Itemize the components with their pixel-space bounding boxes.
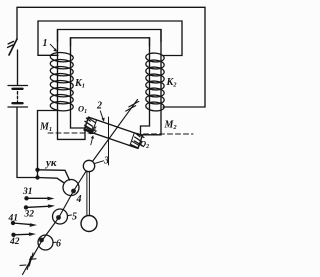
wire vertical branch bbox=[38, 21, 58, 55]
svg-text:6: 6 bbox=[56, 239, 61, 250]
svg-text:42: 42 bbox=[9, 237, 20, 247]
weight hanger double link bbox=[86, 171, 88, 216]
junction dot bbox=[35, 168, 39, 172]
switch SA blade bbox=[9, 39, 17, 55]
contact 42 bbox=[11, 232, 36, 237]
weight ball bbox=[81, 216, 97, 232]
roller circle 6 bbox=[38, 235, 53, 250]
svg-text:ук: ук bbox=[44, 157, 57, 169]
switch tick 2 bbox=[8, 45, 13, 48]
svg-text:О1: О1 bbox=[78, 104, 87, 116]
lever arm bbox=[23, 100, 138, 275]
leader 6 bbox=[53, 241, 56, 243]
lever flexure ticks bottom bbox=[29, 253, 33, 266]
leader 5 bbox=[68, 214, 72, 217]
contact 32 bbox=[24, 204, 55, 209]
svg-text:О2: О2 bbox=[140, 139, 149, 151]
roller circle 5 bbox=[53, 209, 68, 224]
svg-text:31: 31 bbox=[22, 187, 33, 197]
svg-text:5: 5 bbox=[72, 212, 77, 223]
svg-text:2: 2 bbox=[96, 101, 102, 112]
svg-text:4: 4 bbox=[76, 194, 82, 205]
wire outer loop: switch top to right side down to K2 bottom bbox=[17, 7, 205, 107]
junction dot bbox=[35, 175, 39, 179]
angle alpha arrow bbox=[91, 137, 93, 145]
core M1 leg and foot bbox=[58, 30, 86, 140]
svg-text:3: 3 bbox=[103, 156, 109, 167]
armature left cap O1 hatched bbox=[84, 117, 97, 133]
armature rod body bbox=[84, 117, 142, 148]
leader 3 bbox=[95, 161, 104, 164]
wire to coil K1 bottom bbox=[38, 111, 58, 178]
yoke outer contour bbox=[58, 30, 162, 43]
label 2 arrow bbox=[100, 111, 103, 120]
svg-text:1: 1 bbox=[43, 38, 48, 49]
wire switch bottom to battery bbox=[17, 50, 19, 85]
suspension link vertical bbox=[108, 117, 110, 165]
label 1 arrow bbox=[50, 44, 56, 50]
svg-text:41: 41 bbox=[8, 214, 19, 224]
battery plate short thick top bbox=[13, 88, 23, 90]
pole axis M2 dashed bbox=[144, 133, 194, 135]
contact dot 4 bbox=[71, 189, 76, 194]
angle alpha arc bbox=[90, 131, 97, 134]
battery plate short thick bottom bbox=[13, 102, 23, 104]
wire battery down and right to contact pivot bbox=[17, 107, 64, 183]
armature right cap O2 hatched bbox=[130, 133, 144, 149]
coil K1 winding bbox=[50, 52, 74, 112]
svg-text:К2: К2 bbox=[166, 77, 178, 89]
coil K2 winding bbox=[146, 52, 165, 111]
svg-text:М1: М1 bbox=[39, 122, 52, 134]
battery dashed middle bbox=[17, 92, 19, 102]
lever flexure ticks top bbox=[126, 106, 136, 112]
svg-text:М2: М2 bbox=[164, 120, 178, 132]
wire K2 top terminal loop bbox=[38, 21, 182, 56]
battery GB plate long top bbox=[8, 85, 28, 87]
contact 31 bbox=[24, 196, 54, 200]
contact dot 6 bbox=[39, 238, 44, 243]
contact dot 5 bbox=[56, 215, 61, 220]
svg-text:32: 32 bbox=[24, 210, 35, 220]
core M2 leg and foot bbox=[141, 30, 162, 135]
svg-text:К1: К1 bbox=[74, 78, 85, 90]
battery plate long bottom bbox=[8, 106, 28, 108]
wire to moving contact bbox=[38, 170, 70, 180]
pivot circle 3 bbox=[83, 160, 94, 171]
yoke inner contour bbox=[71, 38, 150, 46]
pole axis M1 dashed bbox=[48, 132, 97, 134]
roller circle 4 bbox=[63, 180, 79, 196]
contact 41 bbox=[11, 221, 37, 227]
switch tick 1 bbox=[8, 41, 13, 44]
